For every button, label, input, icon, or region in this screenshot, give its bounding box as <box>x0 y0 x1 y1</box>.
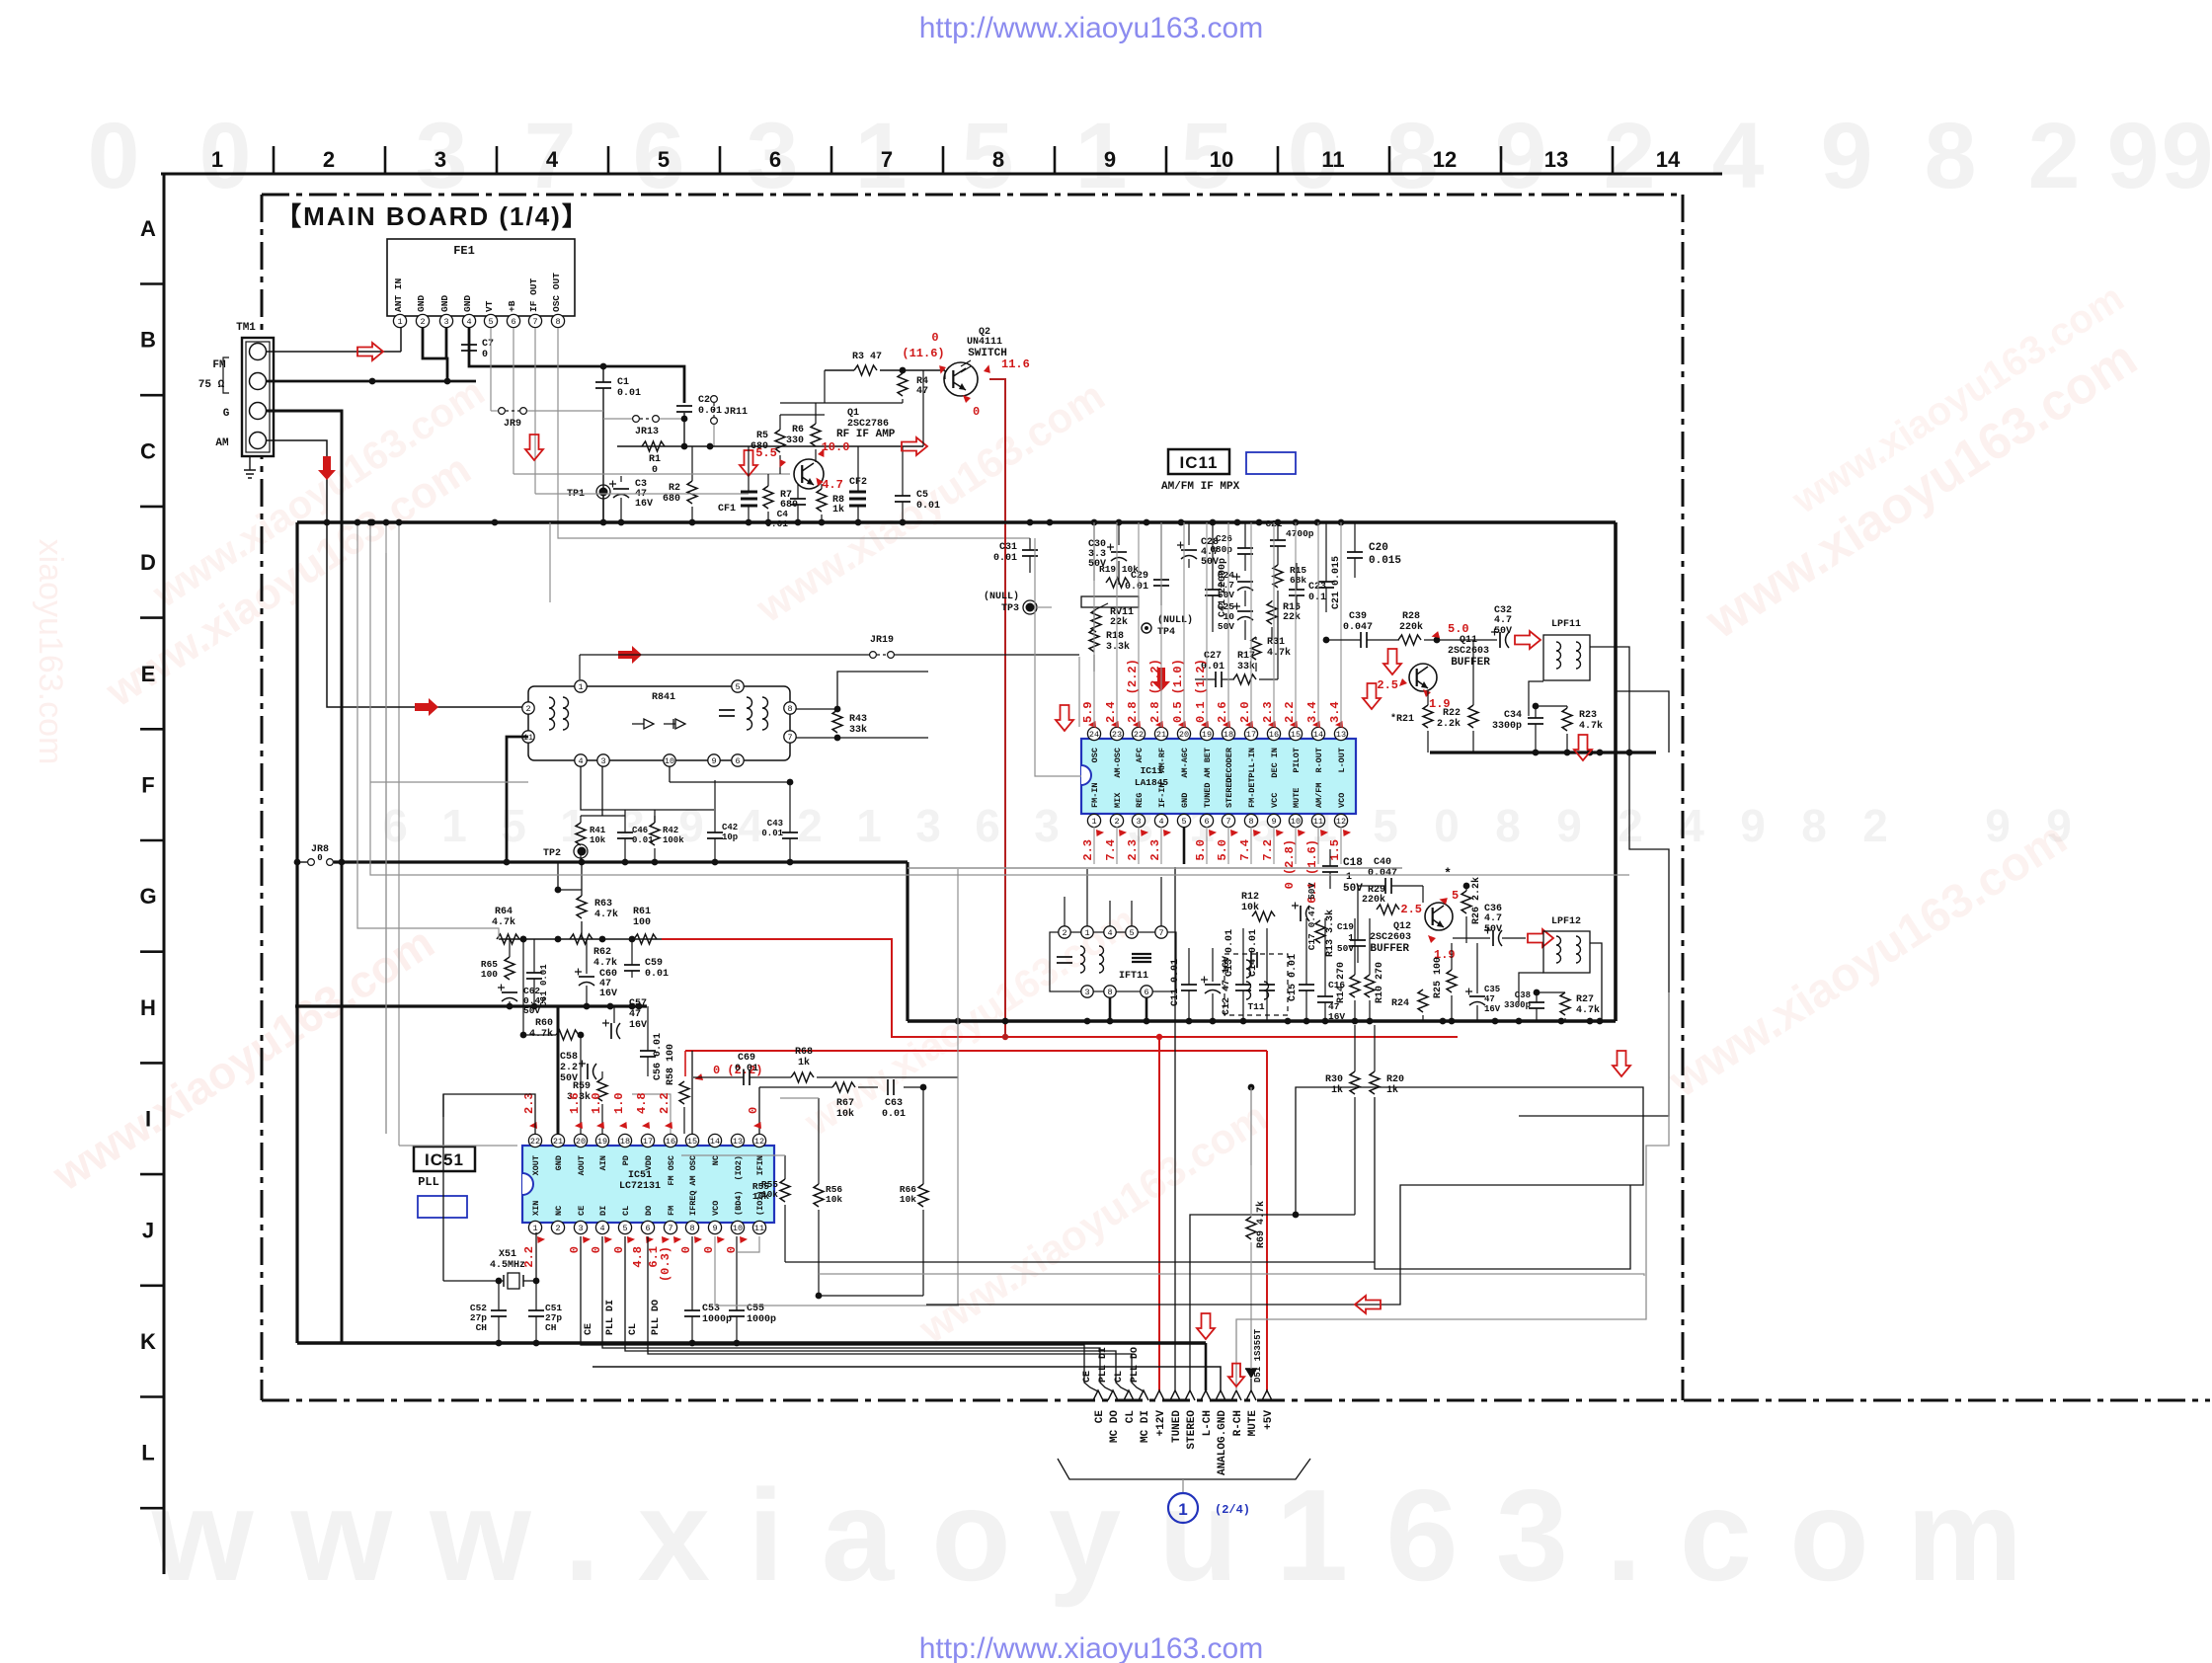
wire FE1 pin7 IFOUT <box>534 328 536 494</box>
grid ruler <box>139 146 1722 1574</box>
svg-text:(2/4): (2/4) <box>1215 1503 1250 1517</box>
svg-text:330: 330 <box>786 436 804 446</box>
red voltage 3.4 IC11 top <box>1305 701 1323 730</box>
red voltage 0 (2.8) IC11 bottom <box>1283 828 1305 890</box>
red voltage 0 IC51 bottom <box>679 1234 702 1254</box>
capacitor C25 <box>1218 601 1253 640</box>
svg-text:5: 5 <box>658 147 670 172</box>
svg-text:5: 5 <box>488 317 493 327</box>
label Q2 <box>967 327 1007 359</box>
svg-text:RF IF AMP: RF IF AMP <box>836 429 896 440</box>
svg-text:0: 0 <box>612 1246 626 1253</box>
wire AM drop <box>267 440 327 522</box>
svg-text:CE: CE <box>1082 1371 1093 1383</box>
wire FM antenna to FE1 pin1 <box>267 328 401 352</box>
svg-text:Q11: Q11 <box>1460 635 1477 646</box>
svg-text:16: 16 <box>666 1137 675 1147</box>
red voltage 4.8 IC51 top <box>635 1092 653 1131</box>
svg-text:DI: DI <box>598 1206 608 1216</box>
svg-text:14: 14 <box>1313 730 1323 740</box>
svg-text:R26 2.2k: R26 2.2k <box>1470 877 1482 924</box>
capacitor C63 <box>882 1079 906 1120</box>
svg-text:5: 5 <box>501 800 526 851</box>
svg-text:C20: C20 <box>1369 542 1388 554</box>
wire IC11 bottom pin drop <box>1093 827 1095 864</box>
svg-text:R1: R1 <box>649 454 661 465</box>
svg-text:C31: C31 <box>999 542 1017 553</box>
svg-text:0: 0 <box>88 104 140 208</box>
red label 0 2.2 <box>695 1064 763 1083</box>
svg-text:14: 14 <box>1656 147 1681 172</box>
svg-text:50V: 50V <box>1494 626 1512 637</box>
wire IC11 bottom pin drop <box>1138 827 1140 864</box>
red voltage 2.8 (2.2) IC11 top <box>1148 659 1166 730</box>
svg-text:5: 5 <box>1129 928 1134 938</box>
svg-text:16V: 16V <box>599 989 617 999</box>
svg-text:16: 16 <box>1269 730 1279 740</box>
svg-text:2SC2603: 2SC2603 <box>1448 646 1489 657</box>
svg-text:22: 22 <box>1134 730 1144 740</box>
label R64 <box>492 907 515 928</box>
svg-text:0.01: 0.01 <box>632 835 654 845</box>
wire IC11 pin drop <box>1183 522 1185 727</box>
svg-text:IC11: IC11 <box>1180 453 1219 472</box>
ceramic CF1 <box>718 446 757 522</box>
wire IC11 bottom pin drop <box>1183 827 1185 864</box>
capacitor C34 <box>1492 706 1543 752</box>
wire IC11 pin drop <box>1160 522 1162 727</box>
svg-text:CL: CL <box>628 1323 639 1335</box>
capacitor C32 <box>1491 605 1512 648</box>
svg-text:IFIN: IFIN <box>755 1155 765 1175</box>
svg-text:OSC OUT: OSC OUT <box>551 273 562 312</box>
svg-text:8: 8 <box>787 704 792 714</box>
red 2.5 Q12 <box>1400 903 1422 916</box>
transistor Q2 <box>944 360 978 396</box>
resistor R30 <box>1325 1025 1360 1215</box>
svg-text:15: 15 <box>1291 730 1301 740</box>
capacitor C36 <box>1453 904 1526 946</box>
svg-text:GND: GND <box>416 295 427 312</box>
svg-text:R30: R30 <box>1325 1074 1343 1085</box>
svg-text:2.5: 2.5 <box>1377 678 1398 692</box>
svg-text:R20: R20 <box>1386 1074 1404 1085</box>
svg-text:0.01: 0.01 <box>735 1064 758 1074</box>
capacitor C40 <box>1358 857 1452 894</box>
capacitor C51 <box>528 1281 562 1343</box>
svg-text:3: 3 <box>443 317 448 327</box>
connector FE1 <box>387 239 575 328</box>
svg-text:21: 21 <box>553 1137 563 1147</box>
jumper JR11 <box>711 396 748 446</box>
svg-text:8: 8 <box>555 317 560 327</box>
svg-text:1.0: 1.0 <box>590 1092 603 1114</box>
svg-text:10k: 10k <box>900 1194 916 1205</box>
svg-text:2: 2 <box>797 800 823 851</box>
svg-text:C: C <box>140 438 156 463</box>
svg-text:C2: C2 <box>698 395 710 406</box>
wire ic51 bus links <box>715 1236 959 1306</box>
capacitor C42 <box>707 780 738 862</box>
svg-text:2: 2 <box>420 317 425 327</box>
svg-text:PLL: PLL <box>418 1175 439 1189</box>
svg-text:(IO2): (IO2) <box>734 1155 744 1181</box>
bus y529 <box>297 519 1616 526</box>
wire route mid gray2 <box>513 473 726 475</box>
resistor R15 <box>1273 563 1306 600</box>
svg-text:6: 6 <box>735 756 740 766</box>
svg-text:3: 3 <box>1034 800 1060 851</box>
svg-text:5.0: 5.0 <box>1194 839 1208 861</box>
label Q12 <box>1370 921 1411 955</box>
resistor R63 <box>555 858 618 939</box>
bus H y1019 <box>295 1003 647 1010</box>
svg-text:*R21: *R21 <box>1390 713 1414 725</box>
wire FE1 pin2 gnd drop <box>423 328 447 381</box>
red 5 Q12 <box>1439 889 1459 907</box>
svg-text:220k: 220k <box>1362 894 1385 906</box>
resistor R60 <box>520 936 579 1040</box>
wire IC11 pin drop <box>1138 522 1140 727</box>
svg-text:10: 10 <box>733 1224 743 1233</box>
svg-text:68k: 68k <box>1290 575 1306 586</box>
red wire +12V drop <box>1158 1037 1160 1390</box>
border frame <box>262 195 2210 1400</box>
svg-text:MUTE: MUTE <box>1292 788 1302 808</box>
svg-text:0: 0 <box>931 331 938 345</box>
wire IC11 pin drop <box>1317 522 1319 727</box>
sheet ref circle 1 <box>1168 1493 1250 1523</box>
wire IC11 bottom pin drop <box>1317 827 1319 864</box>
red voltage 2.4 IC11 top <box>1104 701 1122 730</box>
testpoint TP3 <box>984 591 1052 614</box>
svg-text:4.7k: 4.7k <box>593 957 617 969</box>
wire route ic11 to left1 <box>341 863 343 865</box>
svg-text:R61: R61 <box>633 907 651 917</box>
wire kdrop1 <box>342 581 1629 875</box>
label box IC51 <box>414 1147 475 1171</box>
svg-text:10k: 10k <box>752 1191 769 1202</box>
svg-text:C39: C39 <box>1349 611 1367 622</box>
svg-text:2: 2 <box>525 704 530 714</box>
svg-text:100: 100 <box>481 969 498 980</box>
svg-text:5: 5 <box>1181 817 1186 827</box>
svg-text:R2: R2 <box>669 483 680 494</box>
wire MUTE chain <box>1250 1087 1252 1165</box>
svg-text:2.8 (2.2): 2.8 (2.2) <box>1148 659 1162 723</box>
resistor R4 <box>898 370 928 403</box>
red voltage 2.3 IC11 bottom <box>1148 828 1171 861</box>
svg-text:DECODER: DECODER <box>1224 747 1234 783</box>
svg-text:CL: CL <box>621 1206 631 1216</box>
svg-text:R5: R5 <box>756 431 768 441</box>
wire right gray2 <box>1519 752 1669 1116</box>
svg-text:10p: 10p <box>722 832 738 842</box>
resistor R31 <box>1251 637 1291 672</box>
wire pin20 up <box>578 1032 585 1134</box>
svg-text:3: 3 <box>915 800 941 851</box>
svg-text:C58: C58 <box>560 1052 578 1063</box>
capacitor C4 <box>765 484 806 529</box>
resistor R59 <box>567 1071 607 1134</box>
testpoint TP2 <box>543 844 588 859</box>
wire STEREO route <box>1190 1087 1375 1390</box>
resistor R2 <box>663 446 697 522</box>
svg-text:9: 9 <box>2107 104 2160 208</box>
red 4.7 <box>815 478 843 492</box>
wire IC11 bottom pin drop <box>1160 827 1162 864</box>
svg-text:R22: R22 <box>1443 708 1461 719</box>
red voltage 2.6 IC11 top <box>1216 701 1233 730</box>
svg-text:33k: 33k <box>849 724 867 736</box>
svg-text:9: 9 <box>1740 800 1766 851</box>
svg-text:3: 3 <box>434 147 446 172</box>
wire IC11 bottom pin drop <box>1273 827 1275 864</box>
svg-text:2: 2 <box>1618 800 1643 851</box>
svg-text:AM/FM IF MPX: AM/FM IF MPX <box>1161 481 1240 493</box>
svg-text:1k: 1k <box>1386 1084 1398 1096</box>
label PLL <box>418 1175 439 1189</box>
svg-text:4.8: 4.8 <box>631 1246 645 1268</box>
wire long v zif <box>383 519 390 1134</box>
svg-text:1k: 1k <box>1331 1084 1343 1096</box>
svg-text:4: 4 <box>466 317 471 327</box>
svg-text:C46: C46 <box>632 826 648 835</box>
svg-text:11: 11 <box>1313 817 1323 827</box>
svg-text:IC51: IC51 <box>628 1170 652 1181</box>
svg-text:6: 6 <box>1144 988 1148 997</box>
svg-text:16V: 16V <box>635 499 653 510</box>
resistor R23 <box>1533 703 1603 752</box>
svg-text:UN4111: UN4111 <box>967 337 1002 348</box>
wire CE drop <box>581 1236 1098 1391</box>
svg-text:I: I <box>145 1107 151 1132</box>
svg-text:L: L <box>141 1441 154 1465</box>
svg-text:1: 1 <box>441 800 467 851</box>
svg-text:10k: 10k <box>1241 902 1259 913</box>
svg-text:6: 6 <box>511 317 515 327</box>
svg-text:47: 47 <box>1484 994 1495 1004</box>
svg-text:9: 9 <box>712 1224 717 1233</box>
svg-text:GND: GND <box>462 295 473 312</box>
wire gray v1 <box>367 519 374 581</box>
svg-text:8: 8 <box>1495 800 1521 851</box>
svg-text:12: 12 <box>1336 817 1346 827</box>
red voltage 5.9 IC11 top <box>1081 701 1099 730</box>
resistor R22 <box>1437 640 1478 752</box>
capacitor C29 <box>1125 522 1169 605</box>
wire row951 <box>499 936 662 943</box>
svg-text:9: 9 <box>711 756 716 766</box>
wire disc right <box>796 672 928 738</box>
svg-text:1: 1 <box>397 317 402 327</box>
svg-text:C56 0.01: C56 0.01 <box>653 1033 664 1080</box>
wire disc bottom2 <box>581 766 670 823</box>
svg-text:C38: C38 <box>1515 990 1531 1000</box>
red voltage 2.2 IC11 top <box>1283 701 1301 730</box>
resistor R42 <box>650 810 684 862</box>
svg-text:JR19: JR19 <box>870 635 894 646</box>
resistor R62 <box>570 934 617 969</box>
svg-text:TUNED: TUNED <box>1203 782 1213 808</box>
svg-text:0.01: 0.01 <box>698 406 722 417</box>
svg-text:1: 1 <box>856 800 882 851</box>
svg-text:24: 24 <box>1089 730 1099 740</box>
ceramic CF2 <box>849 446 867 522</box>
wire R1 row <box>617 443 923 450</box>
svg-text:AOUT: AOUT <box>577 1155 587 1175</box>
svg-text:xiaoyu163.com: xiaoyu163.com <box>32 539 69 765</box>
label Q11 <box>1448 635 1490 669</box>
svg-text:(BD4): (BD4) <box>734 1190 744 1216</box>
wire TUNED route <box>1175 867 1254 1390</box>
svg-text:AM/FM: AM/FM <box>1314 782 1324 808</box>
svg-text:R60: R60 <box>535 1018 553 1029</box>
wire Q1 R3 link <box>780 370 825 415</box>
svg-text:3: 3 <box>578 1224 583 1233</box>
svg-text:0.01: 0.01 <box>882 1109 906 1120</box>
bus IC51 gnd drop <box>557 1006 560 1134</box>
resistor R56 <box>814 1098 842 1296</box>
wire IC11 pin drop <box>1206 522 1208 727</box>
svg-text:21: 21 <box>1156 730 1166 740</box>
svg-text:TM1: TM1 <box>236 322 256 334</box>
svg-text:0.01: 0.01 <box>617 388 641 399</box>
dashed transformer T11 <box>1224 952 1288 1015</box>
svg-text:GND: GND <box>554 1155 564 1170</box>
svg-text:47: 47 <box>629 1009 641 1020</box>
svg-text:22k: 22k <box>1110 616 1128 628</box>
svg-text:C57: C57 <box>629 998 647 1009</box>
red voltage 0 IC51 top <box>747 1107 764 1132</box>
svg-text:3.4: 3.4 <box>1328 701 1342 723</box>
wire long route1 <box>549 522 551 602</box>
svg-text:10: 10 <box>1291 817 1301 827</box>
svg-text:0.01: 0.01 <box>916 501 940 512</box>
svg-text:16V: 16V <box>629 1020 647 1031</box>
svg-text:2.3: 2.3 <box>1148 839 1162 861</box>
svg-text:5: 5 <box>962 104 1014 208</box>
svg-text:1: 1 <box>578 682 583 692</box>
wire gray ic51 right1 <box>785 1262 1644 1276</box>
label R55 <box>752 1181 769 1202</box>
red arrow mid down <box>525 435 543 460</box>
svg-text:L-CH: L-CH <box>1202 1410 1214 1436</box>
red 5.0 Q11 <box>1432 622 1469 641</box>
resistor R18 <box>1089 607 1130 672</box>
jumper JR13 <box>603 416 687 437</box>
red wire net A <box>662 939 1458 1040</box>
pot RV11 <box>1081 596 1139 632</box>
red arrow AM down <box>318 456 336 480</box>
resistor R25 <box>1433 943 1457 1021</box>
svg-text:2.3: 2.3 <box>1126 839 1140 861</box>
capacitor C46 <box>617 810 654 862</box>
crystal X51 <box>443 1249 539 1289</box>
svg-text:(NULL): (NULL) <box>1157 614 1193 626</box>
svg-text:2.2k: 2.2k <box>1437 718 1461 730</box>
svg-text:0.5 (1.0): 0.5 (1.0) <box>1171 659 1185 723</box>
svg-text:4: 4 <box>599 1224 604 1233</box>
svg-text:0 (2.8): 0 (2.8) <box>1283 839 1297 889</box>
wire E feed <box>324 519 522 707</box>
svg-text:D: D <box>140 550 156 575</box>
title MAIN BOARD <box>276 201 590 231</box>
resistor R69 <box>1246 1087 1267 1369</box>
capacitor C62 <box>498 985 546 1017</box>
jumper JR19 <box>870 635 895 658</box>
svg-text:1: 1 <box>1091 817 1096 827</box>
red voltage 7.4 IC11 bottom <box>1238 828 1261 861</box>
svg-text:R63: R63 <box>594 899 612 910</box>
red arrow left of IC11 <box>1056 705 1073 731</box>
resistor R43 <box>832 706 867 742</box>
svg-text:50V: 50V <box>1343 883 1363 895</box>
wire bottom thin <box>592 1367 1221 1390</box>
red voltage 0 IC51 bottom <box>590 1234 612 1254</box>
svg-text:20: 20 <box>1179 730 1189 740</box>
svg-text:10.0: 10.0 <box>822 440 850 454</box>
svg-text:16V: 16V <box>1328 1011 1345 1022</box>
svg-text:11: 11 <box>1321 147 1344 172</box>
red arrow conn left <box>1355 1296 1381 1313</box>
svg-text:2.2: 2.2 <box>560 1063 578 1073</box>
svg-text:2.2: 2.2 <box>1283 701 1297 723</box>
svg-text:22: 22 <box>530 1137 540 1147</box>
capacitor C52 <box>470 1281 507 1343</box>
resistor R28 <box>1398 611 1497 645</box>
svg-text:1.0: 1.0 <box>612 1092 626 1114</box>
red arrow E right <box>415 698 438 716</box>
svg-text:http://www.xiaoyu163.com: http://www.xiaoyu163.com <box>919 12 1264 44</box>
resistor R65 <box>481 939 514 980</box>
svg-text:CE: CE <box>584 1323 594 1335</box>
svg-text:F: F <box>141 773 154 798</box>
svg-text:4.7: 4.7 <box>1494 615 1512 626</box>
svg-text:LPF12: LPF12 <box>1551 916 1581 927</box>
svg-text:9: 9 <box>1271 817 1276 827</box>
resistor R64 <box>497 934 519 944</box>
red voltage 6.1 IC51 bottom <box>647 1234 670 1268</box>
wire route ic11pin1 <box>1035 538 1081 776</box>
resistor R58 <box>666 1044 689 1134</box>
svg-text:IC51: IC51 <box>425 1150 464 1169</box>
svg-text:4: 4 <box>546 147 559 172</box>
svg-text:0.01: 0.01 <box>993 553 1017 564</box>
capacitor C41 <box>1205 522 1228 632</box>
svg-text:1.6: 1.6 <box>568 1092 582 1114</box>
svg-text:OSC: OSC <box>1090 748 1100 762</box>
wire IFT11 gnd <box>1110 997 1146 1021</box>
svg-text:4.7k: 4.7k <box>529 1028 553 1040</box>
capacitor C18 <box>1322 849 1363 895</box>
svg-text:5: 5 <box>735 682 740 692</box>
svg-text:R59: R59 <box>573 1081 591 1092</box>
svg-text:TP4: TP4 <box>1157 627 1175 638</box>
svg-text:12: 12 <box>1433 147 1457 172</box>
jumper JR8 <box>308 844 334 865</box>
svg-text:R28: R28 <box>1402 611 1420 622</box>
red voltage 3.4 IC11 top <box>1328 701 1346 730</box>
svg-text:2.8 (2.2): 2.8 (2.2) <box>1126 659 1140 723</box>
wire route d1 <box>355 519 499 939</box>
svg-text:R6: R6 <box>792 425 804 436</box>
red voltage 0 IC51 bottom <box>702 1234 725 1254</box>
capacitor C53 <box>684 1236 732 1343</box>
red voltage 0.5 (1.0) IC11 top <box>1171 659 1189 730</box>
wire IC11 bottom pin drop <box>1227 827 1229 864</box>
svg-text:C13 0.01: C13 0.01 <box>1224 929 1235 977</box>
